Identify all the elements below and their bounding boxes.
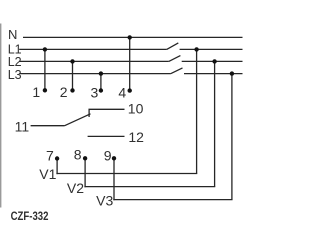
switch K3 blade on L3 — [171, 68, 183, 74]
wire L2 bus left — [19, 60, 169, 62]
node L3 terminal 3 junction — [99, 71, 103, 75]
svg-text:V2: V2 — [67, 180, 84, 196]
svg-text:8: 8 — [74, 146, 82, 162]
svg-text:4: 4 — [118, 85, 126, 101]
node L1 terminal 1 junction — [43, 47, 47, 51]
svg-text:7: 7 — [46, 147, 54, 163]
wire L3 bus right — [184, 73, 243, 75]
wire terminal 3 drop from L3 — [100, 74, 102, 90]
svg-text:L2: L2 — [8, 55, 22, 69]
node N terminal 4 junction — [128, 35, 132, 39]
wire L2 bus right — [182, 60, 243, 62]
svg-text:CZF-332: CZF-332 — [11, 210, 49, 223]
wire V2 horizontal — [84, 186, 215, 188]
wire terminal 1 drop from L1 — [44, 49, 46, 90]
wire terminal 2 drop from L2 — [72, 61, 74, 90]
wire terminal 7 drop — [56, 159, 58, 175]
wire V3 horizontal — [113, 199, 232, 201]
wire L1 bus left — [19, 48, 167, 50]
node terminal 4 — [128, 88, 132, 92]
wire V3 vertical from L3 node — [231, 74, 233, 200]
node L1 switch output junction — [194, 47, 198, 51]
wire V1 horizontal — [56, 173, 197, 175]
switch K1 blade on L1 — [167, 43, 179, 50]
wire L1 bus right — [180, 48, 243, 50]
relay contact blade 11-10 — [65, 114, 91, 126]
wire L3 bus left — [19, 73, 171, 75]
switch K2 blade on L2 — [169, 56, 181, 62]
svg-text:9: 9 — [104, 147, 112, 163]
svg-text:N: N — [8, 27, 17, 42]
wire N bus — [23, 36, 243, 38]
svg-text:2: 2 — [60, 84, 68, 100]
svg-text:1: 1 — [32, 84, 40, 100]
node L2 switch output junction — [212, 59, 216, 63]
relay contact 12 wire — [88, 135, 125, 137]
relay contact 10 hook — [89, 109, 124, 117]
node terminal 8 — [83, 156, 87, 160]
node terminal 2 — [70, 88, 74, 92]
wire relay common 11 — [31, 125, 65, 127]
wire V2 vertical from L2 node — [214, 61, 216, 186]
svg-text:V3: V3 — [96, 192, 113, 208]
wire terminal 8 drop — [84, 158, 86, 187]
svg-text:V1: V1 — [39, 166, 56, 182]
svg-text:3: 3 — [91, 84, 99, 100]
node terminal 3 — [99, 88, 103, 92]
node terminal 9 — [112, 156, 116, 160]
node terminal 7 — [55, 156, 59, 160]
wire terminal 4 drop from N — [129, 37, 131, 90]
node terminal 1 — [43, 88, 47, 92]
wire terminal 9 drop — [113, 158, 115, 200]
svg-text:10: 10 — [128, 101, 144, 117]
svg-text:11: 11 — [15, 118, 30, 134]
node L2 terminal 2 junction — [70, 59, 74, 63]
svg-text:L3: L3 — [8, 68, 22, 82]
node L3 switch output junction — [230, 71, 234, 75]
wire V1 vertical from L1 node — [196, 49, 198, 173]
svg-text:12: 12 — [128, 129, 144, 145]
